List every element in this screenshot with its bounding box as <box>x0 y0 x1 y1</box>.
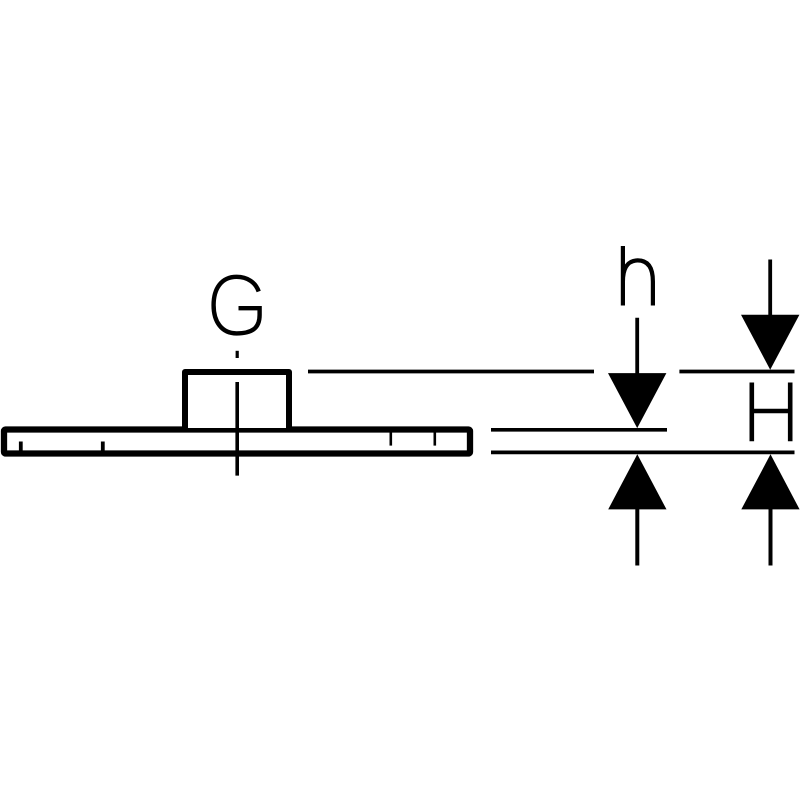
dimension h up arrow <box>608 454 666 509</box>
plate (side view of flat cover plate) <box>4 430 470 454</box>
tick mark 1 on plate bottom <box>19 442 23 453</box>
label h <box>623 246 653 306</box>
tick mark 4 on plate top <box>433 431 436 446</box>
centerline through boss and plate <box>235 382 239 476</box>
dimension H upper leader line <box>768 260 772 331</box>
tick mark 3 on plate top <box>389 431 392 446</box>
dimension h down arrow <box>608 373 666 428</box>
boss (threaded connector G on top of plate) <box>185 372 289 428</box>
label G <box>214 277 260 334</box>
centerline dash below G <box>236 351 239 358</box>
dimension H up arrow <box>741 454 799 509</box>
extension line at plate bottom level <box>491 451 795 455</box>
dimension H lower leader line <box>769 505 773 566</box>
extension line at boss top level, left segment <box>308 370 594 374</box>
dimension h upper leader line <box>635 318 639 395</box>
dimension H down arrow <box>741 315 799 370</box>
extension line at plate top level <box>491 428 667 432</box>
tick mark 2 on plate bottom <box>101 442 105 453</box>
dimension h lower leader line <box>635 505 639 566</box>
label H <box>752 383 790 442</box>
extension line at boss top level, right segment <box>679 370 794 374</box>
